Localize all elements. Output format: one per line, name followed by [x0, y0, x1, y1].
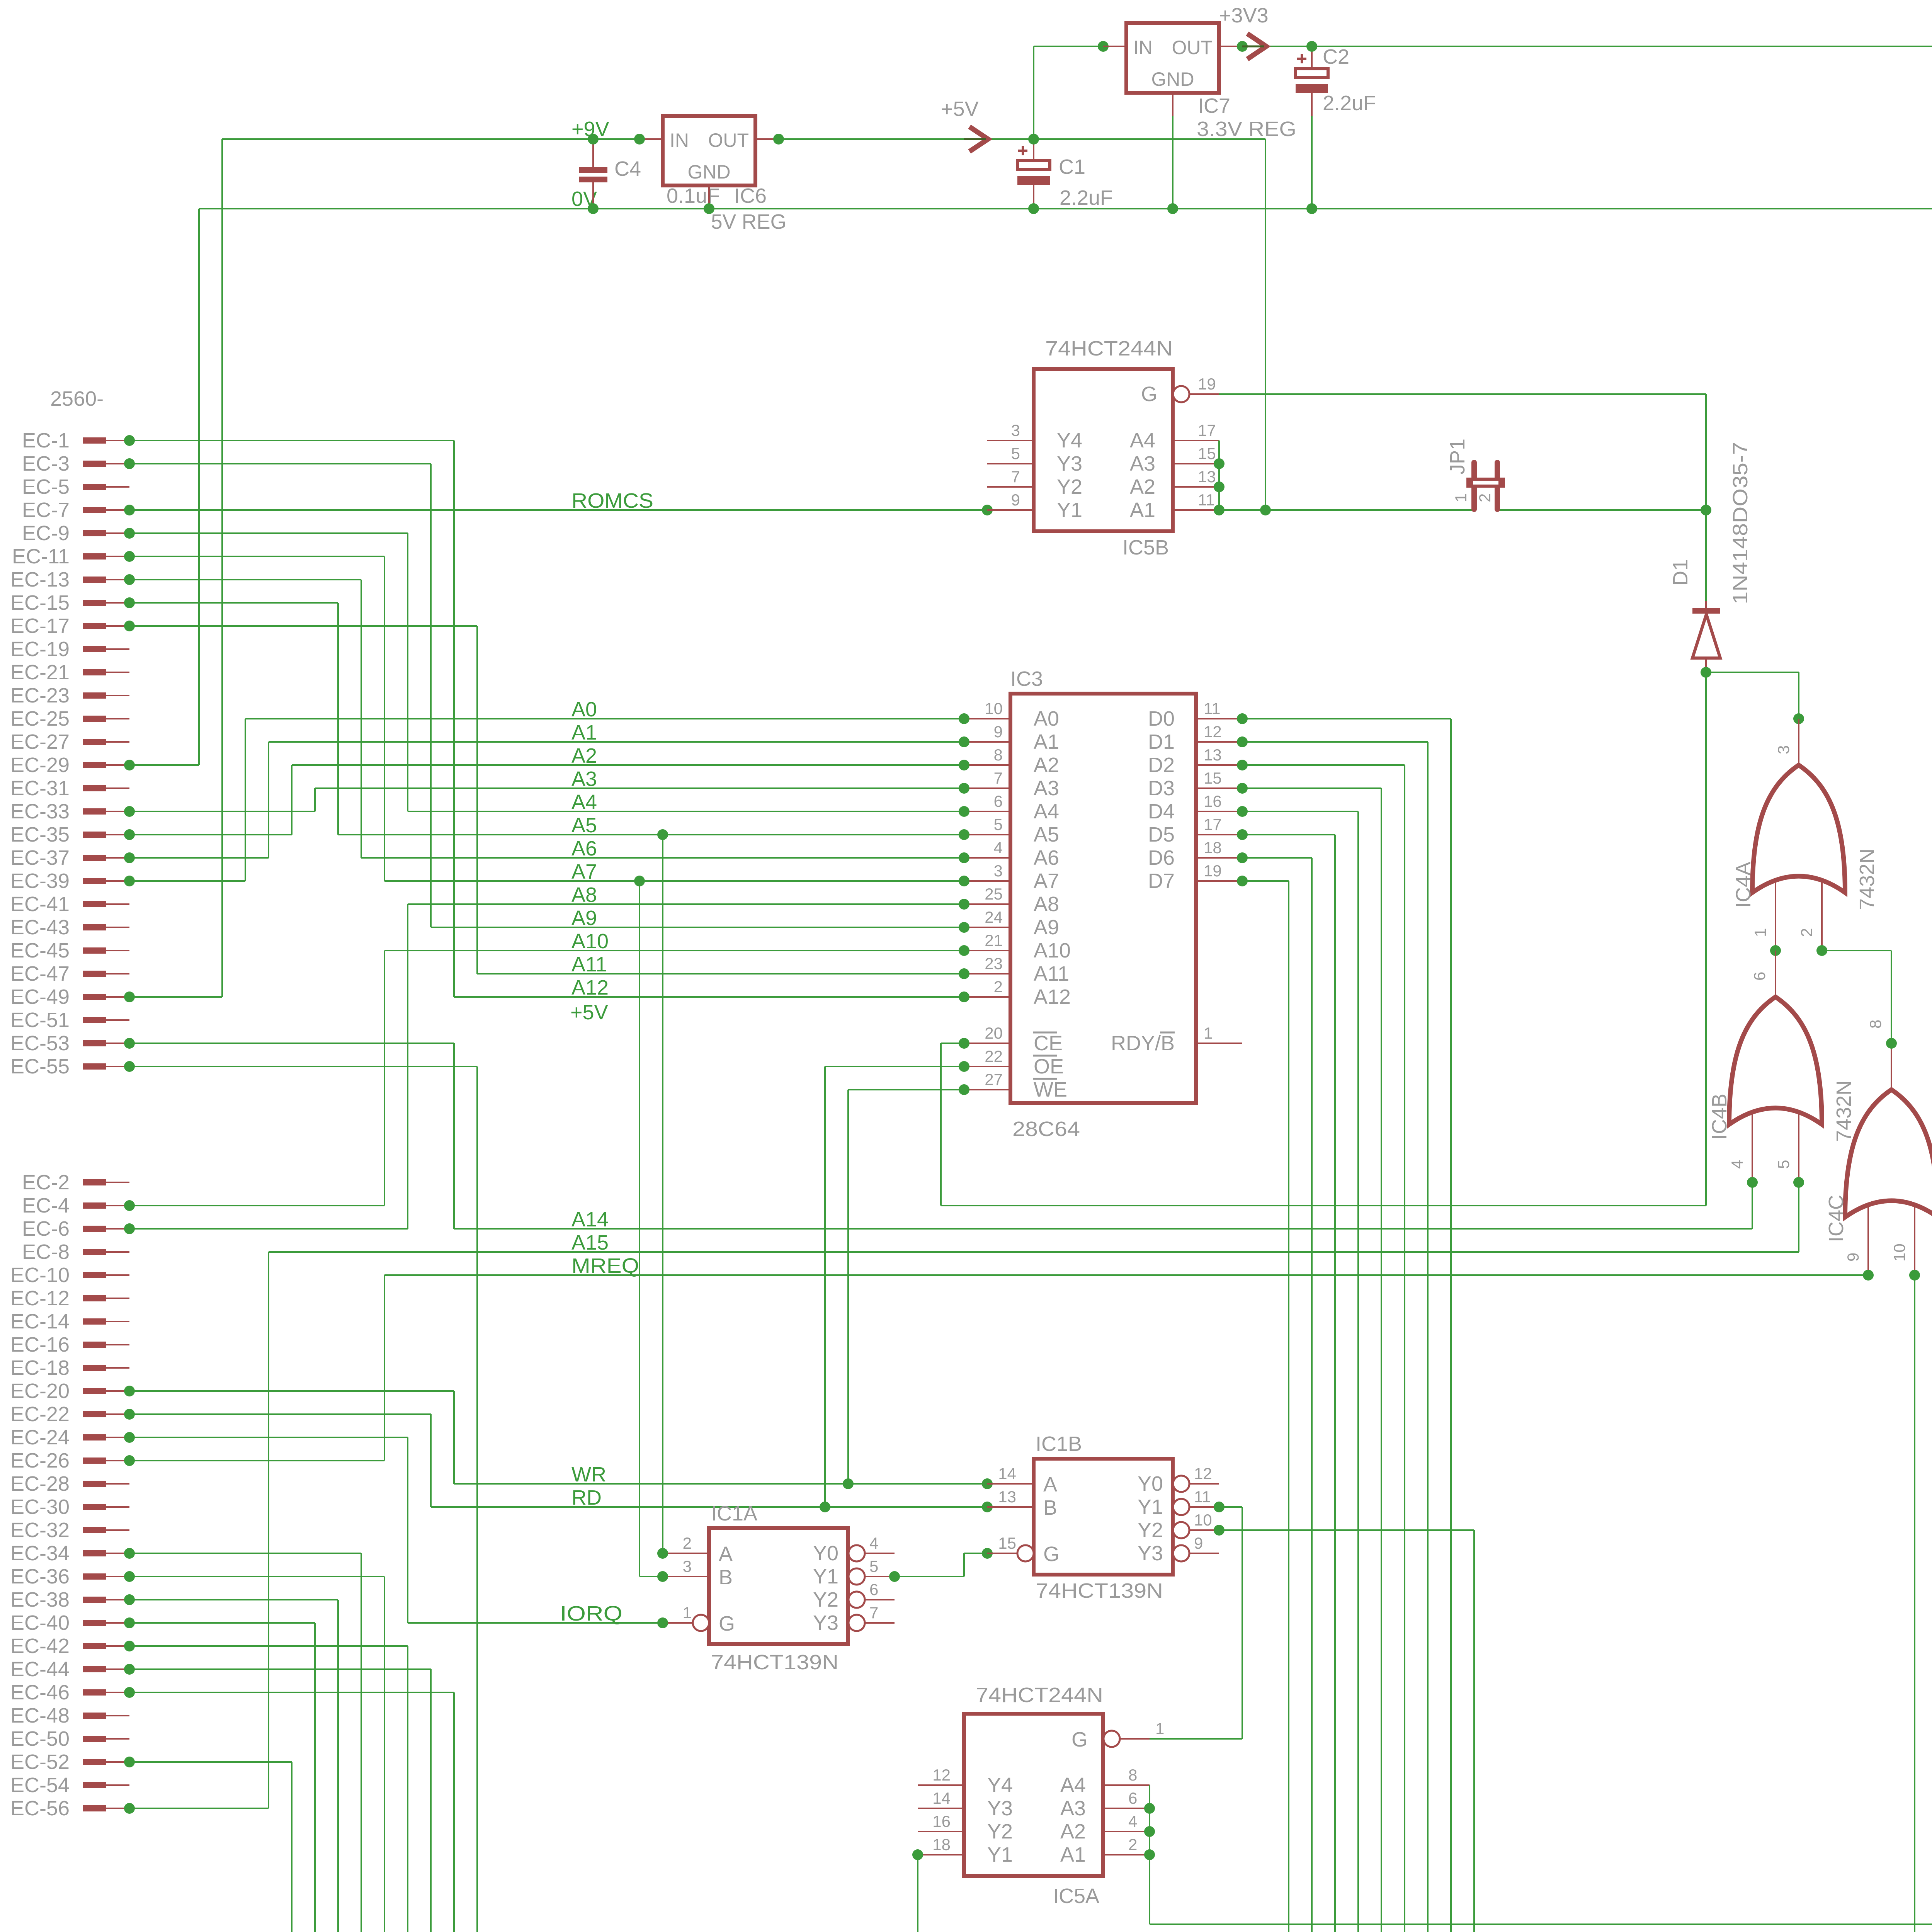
plus sign C1: [1018, 146, 1027, 155]
wire A11 row: [477, 973, 964, 975]
svg-text:23: 23: [985, 954, 1003, 973]
wire EC-42 row: [129, 1645, 408, 1647]
pin EC-14: [83, 1318, 106, 1325]
pin A5 of IC3 (pin 5): [964, 834, 1010, 835]
svg-text:A10: A10: [1034, 939, 1071, 962]
svg-text:7432N: 7432N: [1855, 849, 1879, 910]
pin Y3 of IC1A (pin 7): [866, 1622, 895, 1624]
svg-text:D2: D2: [1148, 753, 1175, 777]
svg-text:74HCT139N: 74HCT139N: [711, 1651, 838, 1674]
pin OUT of IC6: [755, 138, 779, 140]
svg-text:Y1: Y1: [1057, 498, 1082, 522]
svg-text:8: 8: [994, 746, 1003, 764]
wire EC-56 row: [129, 1808, 269, 1809]
wire EC-42 to D2: [407, 1646, 408, 1932]
wire IC4A in2 to IC4C out: [1822, 950, 1891, 951]
svg-text:A4: A4: [1130, 429, 1155, 452]
svg-text:G: G: [1043, 1543, 1060, 1566]
junction EC-52: [124, 1757, 135, 1767]
wire IC3 D3 out: [1242, 787, 1381, 789]
svg-text:EC-45: EC-45: [10, 939, 70, 962]
svg-text:EC-54: EC-54: [10, 1774, 70, 1797]
wire ROMCS EC-7 to IC5B: [129, 509, 987, 511]
wire EC-53 row: [129, 1043, 454, 1044]
capacitor C4: [579, 167, 607, 173]
svg-text:EC-46: EC-46: [10, 1681, 70, 1704]
svg-text:IN: IN: [670, 129, 689, 151]
svg-text:EC-11: EC-11: [12, 545, 70, 568]
pin EC-8: [83, 1249, 106, 1255]
pin Y0 of IC1A (pin 4): [866, 1553, 895, 1554]
wire MISO row: [1150, 1923, 1932, 1925]
wire EC-55 row: [129, 1066, 477, 1067]
svg-text:12: 12: [1204, 723, 1222, 741]
wire IC5A Y1 to D0: [917, 1855, 918, 1932]
pin A1 of IC5A (pin 2): [1103, 1854, 1150, 1855]
svg-text:IC6: IC6: [734, 184, 767, 207]
svg-text:G: G: [1141, 383, 1157, 406]
pin EC-38: [83, 1597, 106, 1603]
wire EC-9 to A4: [407, 533, 408, 811]
svg-text:EC-40: EC-40: [10, 1611, 70, 1634]
wire EC-6 row: [129, 1228, 408, 1230]
pin EC-26: [83, 1458, 106, 1464]
wire IC4C in2 to Q6: [1914, 1275, 1915, 1932]
pin A2 of IC3 (pin 8): [964, 764, 1010, 766]
junction EC-15: [124, 597, 135, 608]
svg-text:74HCT244N: 74HCT244N: [1045, 337, 1173, 360]
wire IC5B G to D1 node: [1219, 393, 1706, 395]
bubble IC1B Y3: [1173, 1545, 1189, 1561]
svg-text:EC-16: EC-16: [10, 1333, 70, 1356]
svg-text:11: 11: [1204, 699, 1221, 718]
svg-text:A0: A0: [571, 698, 597, 721]
pin A6 of IC3 (pin 4): [964, 857, 1010, 859]
pin Y1 of IC1B (pin 11): [1190, 1506, 1219, 1508]
svg-text:A6: A6: [1034, 846, 1059, 869]
svg-text:A2: A2: [1130, 475, 1155, 498]
pin D3 of IC3 (pin 15): [1196, 787, 1242, 789]
junction EC-38: [124, 1594, 135, 1605]
svg-text:0.1uF: 0.1uF: [667, 184, 720, 207]
pin A0 of IC3 (pin 10): [964, 718, 1010, 719]
junction EC-6: [124, 1223, 135, 1234]
junction IC7 OUT: [1237, 41, 1248, 52]
wire IC3 D0 out: [1242, 718, 1451, 719]
wire +3V3 rail: [1242, 46, 1932, 47]
svg-text:EC-36: EC-36: [10, 1565, 70, 1588]
svg-text:OE: OE: [1034, 1055, 1064, 1078]
wire A8 to EC-6: [407, 904, 408, 1229]
pin EC-16: [83, 1342, 106, 1348]
svg-text:4: 4: [994, 838, 1003, 857]
wire CE to OR gate: [941, 1205, 1706, 1206]
svg-text:IC3: IC3: [1010, 667, 1043, 690]
pin EC-30: [83, 1504, 106, 1510]
wire WR row: [454, 1483, 987, 1485]
svg-text:EC-7: EC-7: [22, 498, 70, 522]
svg-text:EC-4: EC-4: [22, 1194, 70, 1217]
svg-text:A4: A4: [1034, 800, 1059, 823]
voltage regulator IC7: [1126, 23, 1219, 93]
wire to JP1 pin 1: [1219, 509, 1474, 511]
svg-text:Y3: Y3: [813, 1611, 838, 1634]
svg-text:EC-39: EC-39: [10, 869, 70, 893]
wire EC-33 row: [129, 811, 315, 812]
svg-text:10: 10: [1890, 1243, 1908, 1262]
svg-text:27: 27: [985, 1070, 1003, 1088]
svg-text:2: 2: [1798, 928, 1816, 937]
pin EC-11: [83, 553, 106, 560]
wire D1 node to IC4A out: [1706, 672, 1799, 673]
wire +9V rail: [222, 138, 639, 140]
svg-text:3: 3: [1011, 421, 1020, 439]
svg-text:EC-9: EC-9: [22, 522, 70, 545]
wire EC-3 row: [129, 463, 431, 464]
svg-text:A7: A7: [571, 860, 597, 883]
svg-text:Y1: Y1: [813, 1565, 838, 1588]
junction IC4A in2: [1816, 945, 1827, 956]
pin B of IC1A (pin 3): [663, 1576, 709, 1577]
svg-text:5: 5: [869, 1557, 878, 1575]
svg-text:6: 6: [869, 1580, 878, 1599]
svg-text:EC-14: EC-14: [10, 1310, 70, 1333]
wire IC3 D1 out: [1242, 741, 1428, 743]
junction EC-49: [124, 992, 135, 1002]
wire A4 row: [408, 811, 964, 812]
svg-text:IC5A: IC5A: [1053, 1884, 1099, 1908]
wire EC-22 to RD: [430, 1414, 432, 1507]
junction IC7 GND 0V: [1167, 203, 1178, 214]
wire EC-35 row: [129, 834, 292, 835]
overline B of RDY/B: [1160, 1032, 1175, 1034]
pin Y3 of IC1B (pin 9): [1190, 1553, 1219, 1554]
pin G of IC1A (pin 1): [663, 1622, 692, 1624]
overline WE: [1033, 1078, 1057, 1080]
svg-text:EC-43: EC-43: [10, 916, 70, 939]
bubble IC5A G: [1104, 1731, 1120, 1747]
wire CE vertical: [940, 1043, 942, 1206]
wire IC3 D6 out: [1242, 857, 1312, 859]
svg-text:EC-32: EC-32: [10, 1519, 70, 1542]
wire D3 vertical: [1381, 788, 1382, 1932]
svg-text:EC-55: EC-55: [10, 1055, 70, 1078]
wire IC7 GND down: [1172, 116, 1173, 209]
diode D1 1N4148: [1705, 510, 1707, 603]
svg-text:19: 19: [1204, 862, 1222, 880]
wire IC4C out to IC4A in2: [1891, 951, 1892, 1043]
pin A4 of IC3 (pin 6): [964, 811, 1010, 812]
wire A6 row: [361, 857, 964, 859]
svg-text:9: 9: [1011, 491, 1020, 509]
svg-text:A14: A14: [571, 1208, 609, 1231]
svg-text:3: 3: [1774, 745, 1793, 754]
svg-text:EC-8: EC-8: [22, 1240, 70, 1264]
svg-text:IC7: IC7: [1198, 94, 1230, 117]
svg-text:5: 5: [1774, 1160, 1793, 1169]
wire D4 vertical: [1357, 811, 1359, 1932]
wire D2 vertical: [1404, 765, 1405, 1932]
wire IC1A Y1 to IC1B G: [895, 1576, 964, 1577]
svg-text:10: 10: [1194, 1511, 1212, 1529]
pin D2 of IC3 (pin 13): [1196, 764, 1242, 766]
svg-text:EC-3: EC-3: [22, 452, 70, 475]
wire RD row: [431, 1506, 987, 1508]
wire IC4B in1 to A14: [1752, 1182, 1753, 1229]
svg-text:6: 6: [1750, 972, 1769, 981]
pin EC-42: [83, 1643, 106, 1649]
wire EC-29 row: [129, 764, 199, 766]
wire EC-20 to WR: [453, 1391, 455, 1484]
svg-text:Y4: Y4: [987, 1774, 1013, 1797]
svg-text:A3: A3: [1034, 777, 1059, 800]
junction IC4C in2: [1909, 1270, 1920, 1281]
svg-text:IC4B: IC4B: [1708, 1094, 1731, 1140]
wire EC-39 row: [129, 880, 245, 882]
junction EC-34: [124, 1548, 135, 1559]
wire +5V vertical: [1265, 139, 1266, 510]
junction EC-37: [124, 852, 135, 863]
wire EC-17 to A11: [476, 626, 478, 974]
svg-text:Y2: Y2: [1057, 475, 1082, 498]
pin EC-25: [83, 716, 106, 722]
wire 0V vertical to EC-29: [198, 209, 200, 765]
pin EC-32: [83, 1527, 106, 1533]
junction EC-42: [124, 1641, 135, 1651]
pin D4 of IC3 (pin 16): [1196, 811, 1242, 812]
wire EC-40 row: [129, 1622, 315, 1624]
wire A5 row: [338, 834, 964, 835]
overline CE: [1033, 1032, 1057, 1034]
svg-text:GND: GND: [1151, 68, 1194, 90]
svg-text:1N4148DO35-7: 1N4148DO35-7: [1729, 442, 1752, 604]
pin EC-12: [83, 1295, 106, 1301]
svg-text:7: 7: [1011, 468, 1020, 486]
pin Y2 of IC5A (pin 16): [918, 1831, 964, 1832]
svg-text:2.2uF: 2.2uF: [1323, 92, 1376, 115]
pin EC-48: [83, 1713, 106, 1719]
wire IC3 D5 out: [1242, 834, 1335, 835]
svg-text:C2: C2: [1323, 45, 1349, 68]
wire A0 vertical: [245, 719, 246, 881]
junction IC6 GND: [704, 203, 714, 214]
svg-text:EC-48: EC-48: [10, 1704, 70, 1727]
svg-text:OUT: OUT: [708, 129, 749, 151]
svg-text:19: 19: [1198, 375, 1216, 393]
svg-text:EC-6: EC-6: [22, 1217, 70, 1240]
svg-text:D1: D1: [1669, 559, 1692, 586]
svg-text:4: 4: [869, 1534, 878, 1552]
svg-text:13: 13: [998, 1488, 1016, 1506]
svg-text:EC-27: EC-27: [10, 730, 70, 753]
svg-text:A9: A9: [1034, 916, 1059, 939]
wire EC-11 to A7: [384, 556, 385, 881]
pin EC-19: [83, 646, 106, 652]
pin RDY/B of IC3 (pin 1): [1196, 1043, 1242, 1044]
wire IC1B Y1 to IC5A G: [1242, 1507, 1243, 1739]
pin EC-34: [83, 1550, 106, 1556]
svg-text:EC-34: EC-34: [10, 1542, 70, 1565]
svg-text:74HCT244N: 74HCT244N: [976, 1684, 1103, 1707]
svg-text:A4: A4: [571, 791, 597, 814]
svg-text:11: 11: [1198, 491, 1215, 509]
svg-text:EC-38: EC-38: [10, 1588, 70, 1611]
pin EC-49: [83, 994, 106, 1000]
wire OE row: [825, 1066, 964, 1067]
jumper JP1: [1474, 463, 1497, 509]
junction C1 bottom: [1028, 203, 1039, 214]
wire A0 row: [245, 718, 964, 719]
svg-text:EC-5: EC-5: [22, 475, 70, 498]
junction IC1B Y1: [1214, 1502, 1225, 1512]
wire EC-24 row: [129, 1437, 408, 1438]
junction IC4A output: [1793, 713, 1804, 724]
wire IC3 D2 out: [1242, 764, 1405, 766]
bubble IC1A Y2: [849, 1592, 865, 1608]
svg-text:A5: A5: [1034, 823, 1059, 846]
svg-text:+5V: +5V: [941, 97, 979, 121]
junction IC4C output: [1886, 1038, 1897, 1049]
junction IC1B G pin: [982, 1548, 993, 1559]
wire EC-38 row: [129, 1599, 338, 1600]
svg-text:ROMCS: ROMCS: [571, 489, 653, 512]
svg-text:A2: A2: [1034, 753, 1059, 777]
svg-text:11: 11: [1194, 1488, 1211, 1506]
buffer IC5B 74HCT244N: [1034, 369, 1173, 531]
svg-text:Y1: Y1: [987, 1843, 1013, 1866]
pin Y3 of IC5A (pin 14): [918, 1808, 964, 1809]
wire EC-44 row: [129, 1668, 431, 1670]
svg-text:1: 1: [1155, 1719, 1164, 1738]
bubble IC1A Y1: [849, 1568, 865, 1585]
svg-text:2: 2: [1128, 1835, 1137, 1854]
wire A1 vertical: [268, 742, 269, 858]
or-gate IC4B 7432N: [1729, 997, 1822, 1124]
pin G of IC5A (pin 1): [1121, 1738, 1150, 1740]
pin EC-39: [83, 878, 106, 884]
junction EC-44: [124, 1664, 135, 1675]
pin EC-3: [83, 461, 106, 467]
pin GND of IC7: [1172, 93, 1173, 116]
junction IC4C in1 MREQ: [1863, 1270, 1874, 1281]
wire EC-17 row: [129, 625, 477, 627]
pin Y0 of IC1B (pin 12): [1190, 1483, 1219, 1485]
junction A5 tap: [657, 829, 668, 840]
pin A8 of IC3 (pin 25): [964, 903, 1010, 905]
junction OE tap: [820, 1502, 830, 1512]
pin IN of IC6: [639, 138, 663, 140]
svg-text:15: 15: [1198, 444, 1216, 463]
bubble IC1A Y3: [849, 1615, 865, 1631]
wire EC-13 row: [129, 579, 361, 580]
wire A15 row: [269, 1251, 1799, 1253]
svg-text:9: 9: [1194, 1534, 1203, 1552]
wire IC3 D7 out: [1242, 880, 1289, 882]
pin EC-37: [83, 855, 106, 861]
supply pin overlap +3V3: [1242, 46, 1264, 48]
svg-text:EC-29: EC-29: [10, 753, 70, 777]
wire MREQ row: [384, 1274, 1868, 1276]
svg-text:9: 9: [994, 723, 1003, 741]
junction EC-3: [124, 458, 135, 469]
wire A10 row: [384, 950, 964, 951]
pin EC-6: [83, 1226, 106, 1232]
svg-text:5V REG: 5V REG: [711, 210, 786, 233]
wire EC-22 row: [129, 1413, 431, 1415]
or-gate IC4C 7432N: [1845, 1090, 1932, 1217]
arrow +5V: [969, 127, 988, 151]
svg-text:16: 16: [932, 1812, 951, 1830]
wire D1 node down to CE row: [1705, 672, 1707, 1206]
svg-text:Y0: Y0: [813, 1542, 838, 1565]
pin EC-43: [83, 924, 106, 930]
wire EC-9 row: [129, 532, 408, 534]
svg-text:EC-23: EC-23: [10, 684, 70, 707]
svg-text:7432N: 7432N: [1832, 1080, 1855, 1142]
junction IC5A Y1: [912, 1849, 923, 1860]
svg-text:IC1B: IC1B: [1036, 1432, 1082, 1456]
wire IC5B A pins tie: [1218, 440, 1220, 510]
svg-text:4: 4: [1128, 1812, 1137, 1830]
svg-text:A0: A0: [1034, 707, 1059, 730]
pin Y2 of IC1A (pin 6): [866, 1599, 895, 1600]
svg-text:MREQ: MREQ: [571, 1254, 639, 1277]
wire A3 row: [315, 787, 964, 789]
pin Y1 of IC5B (pin 9): [987, 509, 1034, 511]
junction C4 bottom: [588, 203, 599, 214]
junction EC-39: [124, 876, 135, 886]
svg-text:EC-41: EC-41: [10, 893, 70, 916]
pin Y1 of IC5A (pin 18): [918, 1854, 964, 1855]
wire +5V rail: [779, 138, 1265, 140]
pin G of IC5B (pin 19): [1190, 393, 1219, 395]
wire D1 vertical: [1427, 742, 1429, 1932]
junction EC-9: [124, 528, 135, 539]
pin Y4 of IC5A (pin 12): [918, 1784, 964, 1786]
svg-text:A2: A2: [571, 744, 597, 767]
svg-text:3: 3: [683, 1557, 692, 1575]
svg-text:22: 22: [985, 1047, 1003, 1065]
svg-text:A: A: [1043, 1473, 1057, 1496]
svg-text:EC-13: EC-13: [10, 568, 70, 591]
wire C1 to IC7 IN: [1033, 46, 1034, 139]
svg-text:B: B: [1043, 1496, 1057, 1519]
junction C1 top: [1028, 134, 1039, 145]
svg-text:13: 13: [1204, 746, 1222, 764]
pin A1 of IC5B (pin 11): [1173, 509, 1219, 511]
svg-text:C1: C1: [1059, 155, 1085, 179]
pin D0 of IC3 (pin 11): [1196, 718, 1242, 719]
svg-text:7: 7: [994, 769, 1003, 787]
wire D7 vertical: [1288, 881, 1289, 1932]
wire EC-36 to D3: [384, 1577, 385, 1932]
pin A9 of IC3 (pin 24): [964, 927, 1010, 928]
wire EC-46 to D0: [453, 1692, 455, 1932]
svg-text:Y3: Y3: [987, 1797, 1013, 1820]
junction EC-11: [124, 551, 135, 562]
svg-text:1: 1: [1452, 493, 1470, 502]
junction WE tap: [843, 1478, 854, 1489]
junction IC7 IN: [1098, 41, 1109, 52]
svg-text:1: 1: [1204, 1024, 1213, 1042]
svg-text:21: 21: [985, 931, 1003, 949]
junction EC-26: [124, 1455, 135, 1466]
pin EC-40: [83, 1620, 106, 1626]
wire EC-1 to A12: [453, 440, 455, 997]
wire EC-38 to D5: [337, 1600, 339, 1932]
svg-text:EC-56: EC-56: [10, 1797, 70, 1820]
svg-text:A1: A1: [1034, 730, 1059, 753]
